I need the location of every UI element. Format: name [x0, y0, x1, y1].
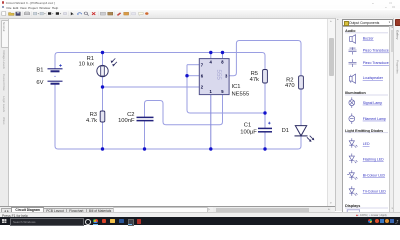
resistor R5 — [263, 70, 268, 84]
signal lamp icon — [349, 97, 355, 108]
right panel: Output Components — [335, 18, 395, 212]
list box — [342, 26, 392, 214]
svg-text:Piezo Transducer: Piezo Transducer — [362, 48, 390, 52]
filament lamp icon — [349, 113, 355, 124]
svg-text:47k: 47k — [250, 77, 259, 83]
horizontal scrollbar — [213, 207, 332, 212]
node R1 top — [101, 51, 104, 54]
wire: R2 bottom to D1 — [300, 89, 302, 126]
dark app — [128, 219, 135, 226]
header combo — [342, 19, 392, 26]
resistor R2 — [299, 76, 304, 89]
wire: pin1 to ground rail — [210, 95, 212, 149]
svg-text:Displays: Displays — [345, 204, 360, 208]
node pin8 — [221, 51, 224, 54]
svg-text:LED: LED — [362, 142, 369, 146]
search box — [10, 218, 84, 226]
svg-text:555: 555 — [215, 70, 222, 81]
node C1 gnd — [263, 147, 266, 150]
svg-text:IC1: IC1 — [232, 84, 241, 90]
svg-text:Audio: Audio — [345, 28, 356, 32]
wire: C2 top to pin5 — [145, 95, 223, 125]
buzzer icon — [349, 34, 355, 43]
wire: pin6 stub — [187, 75, 199, 77]
wire: pin7-pin6 riser to R5/C1 node — [187, 65, 265, 113]
svg-text:NE555: NE555 — [232, 92, 250, 98]
start — [2, 219, 6, 223]
piezo transducer 1 icon — [348, 47, 356, 54]
wire: battery bottom to bottom rail to LED — [55, 84, 301, 149]
taskbar — [0, 217, 400, 225]
red app 2 — [137, 219, 142, 224]
svg-text:Filament Lamp: Filament Lamp — [362, 116, 385, 120]
LED icon — [349, 138, 357, 148]
wire: C1 bottom lead — [264, 132, 266, 150]
svg-text:Buzzer: Buzzer — [362, 36, 374, 40]
capacitor C2 — [137, 117, 154, 120]
wire: pin3 to R2 top — [229, 41, 301, 76]
battery B1 — [48, 64, 63, 84]
node pin4 — [209, 51, 212, 54]
svg-text:Loudspeaker: Loudspeaker — [362, 76, 383, 80]
svg-text:C1: C1 — [244, 123, 251, 129]
node pin1 gnd — [209, 147, 212, 150]
bottom tab row — [0, 206, 335, 214]
resistor R3 — [100, 111, 105, 122]
loudspeaker icon — [349, 74, 355, 83]
node C2 gnd — [143, 147, 146, 150]
chrome — [93, 219, 98, 224]
bi-colour LED icon — [347, 170, 357, 180]
wire: node A to pin2 — [103, 86, 200, 88]
svg-text:6V: 6V — [36, 80, 43, 86]
svg-text:4.7k: 4.7k — [86, 118, 97, 124]
svg-text:Light Emitting Diodes: Light Emitting Diodes — [345, 128, 383, 132]
tri-colour LED icon — [349, 186, 357, 196]
svg-text:470: 470 — [285, 83, 295, 89]
svg-text:Flashing LED: Flashing LED — [362, 157, 383, 161]
svg-text:B1: B1 — [36, 68, 43, 74]
node R3 gnd — [101, 147, 104, 150]
node A (R1/R3/pin2) — [101, 85, 104, 88]
svg-text:100µF: 100µF — [240, 129, 257, 135]
menu bar — [0, 5, 400, 10]
wire: R1 top lead — [102, 53, 104, 66]
empty tab strip area — [113, 207, 208, 214]
wire: C2 bottom lead — [144, 120, 146, 149]
wire: left rail + top rail + drop to R5 — [55, 53, 265, 70]
far right vertical strip — [393, 18, 400, 212]
panel scrollbar — [389, 26, 395, 214]
wire: pin4 stub — [210, 53, 212, 59]
svg-text:Piezo Transducer: Piezo Transducer — [362, 61, 390, 65]
tray icons — [368, 219, 372, 223]
explorer — [110, 219, 115, 223]
node pin6 — [185, 74, 188, 77]
left style-tab strip — [0, 18, 9, 206]
op-amp U1 : IC1 NE555 body — [199, 59, 229, 95]
LED D1 — [295, 126, 315, 142]
wire: pin8 stub — [222, 53, 224, 59]
svg-text:Signal Lamp: Signal Lamp — [362, 100, 382, 104]
svg-text:Bi-Colour LED: Bi-Colour LED — [362, 173, 385, 177]
wire: R3 bottom lead — [102, 122, 104, 149]
svg-text:Illumination: Illumination — [345, 91, 366, 95]
active underlines — [93, 223, 98, 226]
word blue — [119, 219, 124, 224]
svg-text:Tri-Colour LED: Tri-Colour LED — [362, 189, 386, 193]
display icon (partial) — [347, 209, 359, 215]
capacitor C1 — [258, 122, 272, 132]
svg-text:D1: D1 — [282, 128, 289, 134]
red app — [102, 219, 107, 224]
task view circle — [85, 219, 91, 225]
wire: R1 bottom to node / R3 top — [102, 77, 104, 111]
node dots — [101, 51, 267, 151]
piezo transducer 2 icon — [348, 59, 356, 67]
node R5/C1 — [263, 111, 266, 114]
wire: pin7 stub — [187, 64, 199, 66]
wire: R5 bottom to C1 — [264, 83, 266, 129]
svg-text:100nF: 100nF — [118, 118, 135, 124]
status bar — [0, 212, 400, 218]
toolbar — [0, 10, 400, 19]
flashing LED icon — [349, 153, 357, 163]
canvas vertical scrollbar — [327, 18, 336, 206]
svg-text:10 lux: 10 lux — [79, 61, 95, 67]
title bar — [0, 0, 400, 6]
resistor R1 (LDR) — [97, 58, 117, 76]
